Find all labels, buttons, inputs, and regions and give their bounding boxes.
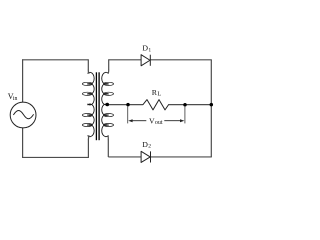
- svg-text:in: in: [13, 96, 18, 102]
- svg-text:out: out: [155, 120, 163, 126]
- svg-text:2: 2: [148, 144, 151, 150]
- svg-text:1: 1: [148, 47, 151, 53]
- svg-text:L: L: [157, 91, 161, 98]
